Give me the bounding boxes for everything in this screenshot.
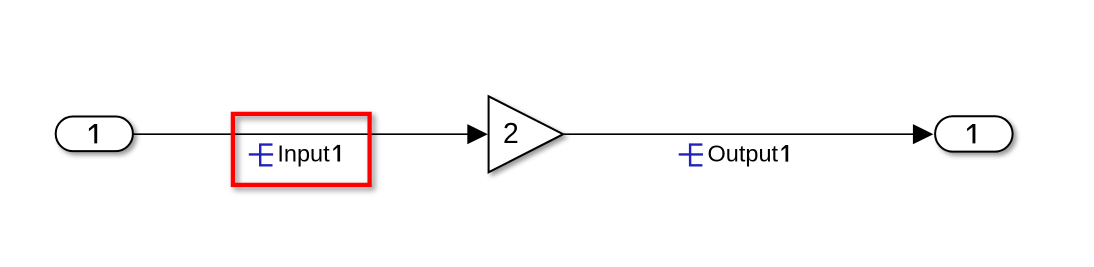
- svg-text:Input: Input: [277, 141, 330, 167]
- svg-text:2: 2: [503, 117, 519, 149]
- svg-text:Output: Output: [708, 141, 779, 167]
